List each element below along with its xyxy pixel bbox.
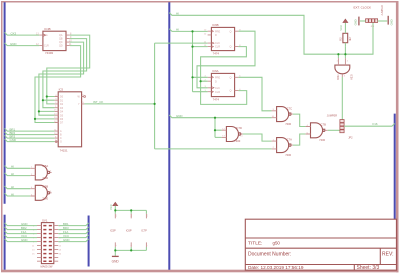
- NAND gate IC7A: [272, 137, 293, 157]
- wire net GND power rail: [115, 247, 146, 256]
- wire net jumper JP1 right to ground: [378, 20, 388, 22]
- svg-text:7400: 7400: [285, 153, 291, 157]
- wire net GND to SV1 pin 1: [5, 222, 37, 226]
- svg-text:GND: GND: [176, 114, 182, 118]
- svg-text:Q: Q: [230, 90, 232, 93]
- wire net VCC to SV1 pin 7: [5, 234, 37, 238]
- svg-text:7409: 7409: [336, 74, 339, 80]
- counter IC4B 74393: [36, 27, 72, 55]
- svg-text:PRE: PRE: [215, 76, 220, 79]
- svg-text:JUMPER: JUMPER: [327, 115, 337, 118]
- bus right vertical: [394, 114, 396, 220]
- connector SV1 MA05-2W: [32, 218, 62, 268]
- svg-text:JUMPER: JUMPER: [381, 5, 384, 15]
- wire net IC7D output to IC7A input 1: [243, 134, 272, 141]
- wire net HI pullup branch to preset/clear pins: [169, 27, 207, 91]
- wire net GND to SV1 pin 9: [5, 238, 37, 242]
- junction dots GND rail: [114, 249, 116, 251]
- svg-text:JP2: JP2: [348, 137, 353, 140]
- svg-text:Q: Q: [230, 30, 232, 33]
- svg-text:Sheet: 3/3: Sheet: 3/3: [357, 265, 380, 271]
- svg-text:IC6A: IC6A: [212, 69, 218, 73]
- svg-text:IC6B: IC6B: [212, 23, 218, 27]
- svg-text:GND: GND: [21, 238, 27, 242]
- svg-text:Q: Q: [230, 46, 232, 49]
- wire net Q2 to IC7C input 1: [238, 77, 271, 111]
- wire net INT_CK from mux Y to CLK of IC6B and to IC7A input: [84, 43, 271, 149]
- svg-text:g50: g50: [273, 241, 281, 246]
- wire net jumper JP1 left to ground: [360, 20, 366, 22]
- svg-text:IC3A: IC3A: [349, 74, 352, 80]
- wire net BR1 from SV1 pin 2: [58, 222, 88, 226]
- svg-text:HI: HI: [11, 172, 14, 176]
- svg-text:CK3: CK3: [11, 31, 17, 35]
- wire net HI from bus to AND gate and pullup: [169, 11, 373, 58]
- wire net GND to IC7C input 2 and IC7D inputs: [169, 114, 271, 137]
- power pins IC5P IC6P IC7P: [110, 214, 148, 247]
- svg-text:VCC: VCC: [109, 204, 113, 210]
- wire net F16 from JP2 to right bus: [344, 122, 395, 126]
- VCC supply symbol above R2: [339, 19, 348, 31]
- svg-text:GND: GND: [389, 19, 393, 25]
- svg-text:GND: GND: [10, 138, 16, 142]
- wire net Q1 to CLK of IC6A: [197, 31, 255, 88]
- svg-text:HI: HI: [11, 165, 14, 169]
- bus right of connector SV1: [88, 216, 90, 267]
- wire net BR3 to mux C: [5, 134, 55, 138]
- svg-text:QD: QD: [59, 45, 63, 48]
- svg-text:CLR: CLR: [215, 91, 220, 94]
- jumper JP1: [366, 5, 384, 28]
- wire net VCC from SV1 pin 8: [58, 234, 88, 238]
- wire net HI to IC5B input 1: [5, 185, 31, 189]
- svg-text:VCC: VCC: [339, 25, 343, 31]
- svg-text:4k7: 4k7: [348, 36, 352, 41]
- wire net BR2 to SV1 pin 3: [5, 226, 37, 230]
- svg-text:IC7B: IC7B: [320, 123, 326, 127]
- wire net F1A to SV1 pin 5: [5, 230, 37, 234]
- svg-text:TITLE:: TITLE:: [248, 240, 262, 246]
- wire net IC7A output to IC7B input 2: [293, 134, 306, 145]
- wire net AND output down to jumper JP2: [341, 77, 343, 120]
- ground symbol right of JP1: [388, 16, 393, 26]
- wire net HI to IC5B input 2: [5, 192, 31, 196]
- svg-text:G: G: [60, 141, 62, 144]
- NAND gate IC5A: [30, 164, 52, 180]
- wire net F1A from SV1 pin 6: [58, 230, 88, 234]
- svg-text:D: D: [215, 80, 217, 83]
- svg-text:HI: HI: [176, 27, 179, 31]
- svg-text:HI: HI: [11, 185, 14, 189]
- svg-text:INT_CK: INT_CK: [93, 100, 103, 104]
- svg-text:IC5B: IC5B: [42, 185, 48, 189]
- VCC supply symbol: [109, 202, 118, 210]
- svg-text:SV1: SV1: [42, 218, 48, 222]
- wire net HI to IC5A input 2: [5, 172, 31, 176]
- ground symbol left of JP1: [353, 17, 359, 26]
- NAND gate IC7D: [222, 126, 244, 143]
- svg-text:IC5P: IC5P: [110, 229, 116, 233]
- bus left vertical segment lower: [4, 215, 6, 270]
- svg-text:HI: HI: [176, 11, 179, 15]
- svg-text:MA05-2W: MA05-2W: [41, 265, 53, 269]
- svg-text:7400: 7400: [42, 176, 48, 180]
- wire net IC7B output to jumper JP2: [328, 129, 340, 131]
- svg-text:7474: 7474: [213, 97, 220, 101]
- svg-text:CLK: CLK: [215, 87, 220, 90]
- wire net GND to mux G: [5, 138, 55, 142]
- wire net BR1 to mux A: [5, 127, 55, 131]
- svg-text:Q: Q: [230, 76, 232, 79]
- wire net IC7C output to IC7B input 1: [293, 114, 306, 126]
- flip-flop IC6B 7474: [204, 23, 241, 55]
- svg-text:PRE: PRE: [215, 30, 220, 33]
- wire net Q1-bar loop to D of IC6A and Q2-bar: [200, 47, 247, 105]
- jumper JP2: [327, 115, 353, 140]
- wire net BR2 to mux B: [5, 131, 55, 135]
- wire net QA to mux D0/D2: [47, 35, 90, 104]
- resistor R2: [338, 23, 352, 47]
- junction dots VCC rail: [114, 209, 116, 211]
- svg-text:GND: GND: [63, 238, 69, 242]
- svg-text:CLR: CLR: [44, 45, 49, 48]
- svg-text:CLR: CLR: [215, 46, 220, 49]
- svg-text:Date: 12.03.2019 17:56:19: Date: 12.03.2019 17:56:19: [248, 265, 304, 270]
- svg-text:IC7P: IC7P: [141, 229, 147, 233]
- svg-text:74151: 74151: [60, 148, 68, 152]
- svg-text:IC7C: IC7C: [286, 106, 292, 110]
- wire net BR3 from SV1 pin 4: [58, 226, 88, 230]
- svg-text:REV:: REV:: [382, 251, 393, 257]
- svg-text:7400: 7400: [42, 197, 48, 201]
- NAND gate IC7C: [272, 106, 293, 126]
- svg-text:HI: HI: [11, 192, 14, 196]
- svg-text:7400: 7400: [319, 138, 325, 142]
- wire net CK3: [5, 31, 40, 35]
- NAND gate IC5B: [30, 185, 52, 201]
- svg-text:74393: 74393: [45, 51, 53, 55]
- svg-text:GND: GND: [112, 260, 120, 264]
- svg-text:GND: GND: [10, 42, 16, 46]
- wire net GND to counter: [5, 42, 40, 46]
- svg-text:F16: F16: [373, 122, 378, 126]
- svg-text:IC6P: IC6P: [126, 229, 132, 233]
- svg-text:IC7A: IC7A: [286, 137, 292, 141]
- flip-flop IC6A 7474: [205, 69, 242, 101]
- svg-text:IC7D: IC7D: [236, 126, 242, 130]
- svg-text:Document Number:: Document Number:: [248, 251, 291, 257]
- svg-text:EXT. CLOCK: EXT. CLOCK: [354, 6, 372, 10]
- multiplexer IC5 74151: [54, 87, 86, 152]
- wire net QD to mux D6/D7: [35, 46, 81, 123]
- bus left vertical segment upper: [4, 2, 6, 204]
- svg-text:D: D: [215, 34, 217, 37]
- svg-text:IC5A: IC5A: [42, 164, 48, 168]
- AND gate IC3A facing down: [335, 58, 352, 80]
- wire net VCC power rail: [115, 206, 146, 214]
- wire net QC to mux D4/D5: [39, 42, 84, 115]
- svg-text:IC5: IC5: [59, 87, 64, 91]
- svg-text:IC4B: IC4B: [44, 27, 50, 31]
- svg-text:7474: 7474: [213, 51, 220, 55]
- ground symbol below power rail: [112, 256, 120, 263]
- bus middle vertical: [168, 2, 170, 270]
- svg-text:7400: 7400: [234, 139, 240, 143]
- title block: [245, 219, 396, 271]
- svg-text:7400: 7400: [285, 122, 291, 126]
- wire net HI to IC5A input 1: [5, 165, 31, 169]
- NAND gate IC7B: [306, 123, 328, 143]
- svg-text:R2: R2: [338, 37, 342, 41]
- wire net QB to mux D1/D3: [43, 39, 87, 108]
- junction dots on mux input column: [34, 95, 48, 120]
- wire net GND from SV1 pin 10: [58, 238, 88, 242]
- svg-text:GND: GND: [353, 19, 357, 25]
